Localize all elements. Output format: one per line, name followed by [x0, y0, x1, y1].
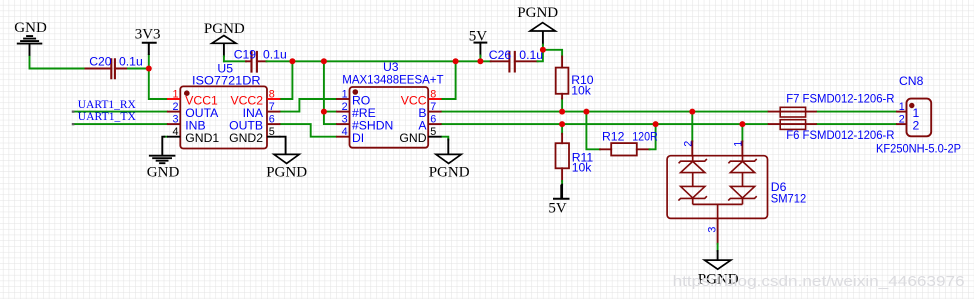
wire line B down to R12 — [586, 112, 600, 150]
svg-text:5: 5 — [269, 126, 275, 138]
wire U5 OUTB to U3 DI — [280, 124, 336, 137]
svg-text:2: 2 — [342, 101, 348, 113]
capacitor C19 leads — [246, 60, 267, 62]
junction line B / R12 — [583, 109, 589, 115]
svg-text:4: 4 — [342, 126, 348, 138]
wire line B (F7 to CN8) — [817, 111, 896, 113]
capacitor C26 leads — [491, 60, 538, 62]
junction top rail / U3 RE-SHDN — [321, 58, 327, 64]
power PGND below U5 triangle — [274, 154, 299, 163]
svg-text:1: 1 — [899, 101, 905, 113]
svg-text:F7 FSMD012-1206-R: F7 FSMD012-1206-R — [786, 92, 894, 106]
junction U3 RE tap — [321, 109, 327, 115]
ground GND top-left earth symbol — [17, 36, 43, 56]
U3 pin 4 — [336, 136, 349, 138]
U3 pin 3 — [336, 123, 349, 125]
svg-text:2: 2 — [172, 101, 178, 113]
svg-text:3: 3 — [342, 113, 348, 125]
U3 pin 8 — [428, 98, 441, 100]
CN8 pin 1 — [896, 111, 906, 113]
capacitor C19 plates — [252, 51, 257, 73]
svg-text:5V: 5V — [469, 29, 488, 45]
resistor R11 — [556, 143, 570, 168]
svg-text:MAX13488EESA+T: MAX13488EESA+T — [342, 73, 444, 87]
diode D6b lower-left zener — [681, 186, 705, 198]
CN8 pin1 marker dot — [910, 103, 914, 107]
junction 3V3/C20 node — [146, 66, 152, 72]
svg-text:PGND: PGND — [517, 5, 558, 21]
junction line B / D6 pin2 — [689, 109, 695, 115]
svg-text:0.1u: 0.1u — [519, 48, 543, 62]
junction C26/PGND/R10 node — [540, 47, 546, 53]
svg-text:GND2: GND2 — [229, 131, 263, 145]
CN8 pin 2 — [896, 123, 906, 125]
fuse F6 — [768, 120, 817, 130]
svg-text:3V3: 3V3 — [135, 27, 161, 43]
svg-text:PGND: PGND — [266, 165, 307, 181]
connector CN8 body — [896, 99, 931, 137]
svg-text:5: 5 — [430, 126, 436, 138]
wire 5V stem top — [479, 43, 481, 56]
svg-text:C20: C20 — [89, 54, 112, 68]
wire U5 GND2 to PGND — [280, 137, 285, 155]
svg-text:7: 7 — [269, 101, 275, 113]
svg-text:10k: 10k — [572, 160, 593, 174]
junction line A / R12 — [653, 121, 659, 127]
wire U5 GND1 to ground — [164, 136, 167, 138]
IC U3 MAX13488EESA+T body — [336, 87, 442, 148]
wire C20 to 3V3 junction — [128, 68, 149, 70]
svg-text:5V: 5V — [548, 201, 567, 217]
svg-text:PGND: PGND — [204, 21, 245, 37]
wire UART1_TX — [73, 123, 167, 125]
svg-text:3: 3 — [172, 113, 178, 125]
svg-text:F6 FSMD012-1206-R: F6 FSMD012-1206-R — [786, 128, 894, 142]
power PGND top-middle triangle — [212, 36, 236, 44]
svg-text:GND: GND — [399, 131, 426, 145]
wire U3 VCC up to top rail — [442, 61, 456, 99]
svg-text:PGND: PGND — [429, 165, 470, 181]
ground GND below U5 pin4 earth symbol — [149, 156, 176, 164]
power PGND below U3 triangle — [436, 154, 461, 163]
resistor R12 — [611, 143, 637, 155]
svg-text:2: 2 — [683, 141, 695, 147]
wire line A (U3 pin6 to F6) — [442, 123, 768, 125]
U5 pin 6 — [267, 123, 280, 125]
wire end marker UART1_RX — [72, 111, 75, 113]
svg-text:GND1: GND1 — [185, 131, 219, 145]
U3 pin 1 — [336, 98, 349, 100]
U5 pin 5 — [267, 136, 280, 138]
D6 internal rail to pin 3 — [693, 204, 743, 218]
wire U5 VCC2 up to top rail — [280, 61, 292, 99]
capacitor C20 plates — [111, 58, 115, 79]
U3 pin 7 — [428, 111, 441, 113]
wire 3V3 stem green part — [148, 55, 150, 69]
wire C26 to PGND junction and R10 — [538, 50, 563, 62]
junction top rail / U3 VCC — [453, 58, 459, 64]
wire line B (U3 pin7 to F7) — [442, 111, 768, 113]
svg-text:1: 1 — [342, 88, 348, 100]
wire 3V3 junction down to U5 pin1 — [149, 69, 167, 100]
resistor R10 top lead — [561, 57, 563, 68]
svg-text:1: 1 — [172, 88, 178, 100]
wire R12 up to line A — [650, 124, 656, 149]
U3 pin 2 — [336, 111, 349, 113]
svg-text:DI: DI — [352, 131, 364, 145]
diode D6c upper-right zener — [742, 156, 744, 162]
svg-text:10k: 10k — [571, 84, 592, 98]
svg-text:GND: GND — [147, 165, 180, 181]
junction top rail / U5 VCC2 — [289, 58, 295, 64]
junction line B / R10 — [559, 109, 565, 115]
diode D6d lower-right zener — [730, 186, 754, 198]
diode D6a upper-left zener — [692, 156, 694, 162]
svg-text:R12: R12 — [602, 129, 625, 143]
wire GND to C20 (net 3V3 left) — [30, 56, 86, 69]
U3 pin 5 — [428, 136, 441, 138]
power 5V top bar — [474, 42, 488, 44]
wire top rail PGND to C19 — [224, 60, 246, 62]
wire line B down to D6 pin2 — [691, 112, 693, 142]
resistor R10 — [556, 68, 569, 94]
svg-text:C26: C26 — [489, 48, 512, 62]
svg-text:UART1_TX: UART1_TX — [78, 109, 137, 123]
junction line A / R11 — [559, 121, 565, 127]
svg-text:8: 8 — [430, 88, 436, 100]
U3 pin1 marker dot — [353, 90, 358, 95]
svg-text:0.1u: 0.1u — [263, 48, 287, 62]
svg-text:2: 2 — [899, 114, 905, 126]
svg-text:CN8: CN8 — [899, 74, 924, 88]
wire UART1_RX — [73, 111, 167, 113]
svg-text:4: 4 — [172, 126, 178, 138]
U5 pin 7 — [267, 111, 280, 113]
svg-text:120R: 120R — [632, 129, 658, 143]
wire R10 bottom to line B — [561, 99, 563, 112]
svg-text:C19: C19 — [234, 48, 257, 62]
wire line A to R11 — [561, 124, 563, 134]
svg-text:6: 6 — [269, 113, 275, 125]
svg-text:https://blog.csdn.net/weixin_4: https://blog.csdn.net/weixin_44663976 — [673, 273, 965, 290]
svg-text:6: 6 — [430, 113, 436, 125]
svg-text:2: 2 — [913, 119, 920, 133]
wire top rail to U3 RE/SHDN — [324, 61, 336, 124]
junction line A / D6 pin1 — [739, 121, 745, 127]
wire end marker UART1_TX — [72, 123, 75, 125]
wire top rail C19 to C26 — [267, 60, 491, 62]
power 3V3 bar — [142, 43, 157, 55]
junction top rail / 5V — [477, 58, 483, 64]
U5 pin 3 — [167, 123, 180, 125]
power PGND below D6 triangle — [705, 260, 731, 269]
svg-text:8: 8 — [269, 88, 275, 100]
svg-text:0.1u: 0.1u — [119, 54, 143, 68]
wire U3 GND to PGND — [442, 137, 449, 140]
power PGND top-right triangle — [530, 23, 555, 31]
wire PGND1 stem — [223, 43, 225, 56]
capacitor C20 leads — [86, 68, 129, 70]
wire D6 pin3 to PGND — [717, 218, 719, 243]
wire line A down to D6 pin1 — [741, 124, 743, 141]
svg-text:KF250NH-5.0-2P: KF250NH-5.0-2P — [876, 142, 961, 156]
U5 pin 8 — [267, 98, 280, 100]
svg-text:3: 3 — [706, 227, 718, 233]
wire R11 bottom to 5V — [561, 168, 563, 181]
wire line A (F6 to CN8) — [817, 123, 896, 125]
wire U5 INA to U3 RO — [280, 99, 336, 112]
svg-text:GND: GND — [14, 20, 47, 36]
svg-text:SM712: SM712 — [771, 192, 807, 206]
svg-text:ISO7721DR: ISO7721DR — [192, 74, 261, 88]
fuse F7 — [768, 107, 817, 117]
U5 pin 2 — [167, 111, 180, 113]
IC U5 ISO7721DR body — [167, 86, 281, 148]
resistor R12 leads — [600, 148, 649, 150]
TVS diode array D6 SM712 body — [667, 156, 767, 219]
wire PGND2 stem — [542, 31, 544, 45]
capacitor C26 plates — [509, 51, 514, 73]
U5 pin 1 — [167, 98, 180, 100]
U5 pin1 marker dot — [185, 91, 190, 96]
power 5V bottom bar — [553, 185, 570, 199]
svg-text:1: 1 — [733, 141, 745, 147]
svg-text:7: 7 — [430, 101, 436, 113]
U5 pin 4 — [167, 136, 180, 138]
U3 pin 6 — [428, 123, 441, 125]
